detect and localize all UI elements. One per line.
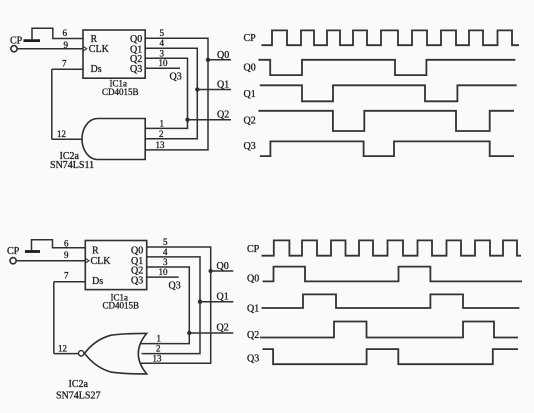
svg-text:12: 12 bbox=[58, 343, 67, 353]
svg-text:Q3: Q3 bbox=[169, 281, 181, 292]
svg-text:Q1: Q1 bbox=[217, 292, 229, 303]
clock edge arrowhead at CLK input (bottom) bbox=[86, 259, 89, 263]
svg-text:2: 2 bbox=[159, 129, 164, 139]
wire CP to CLK pin 9 (top) bbox=[17, 48, 83, 50]
wire feedback vertical from NOR output up to Ds (bottom) bbox=[53, 282, 55, 354]
svg-text:6: 6 bbox=[63, 28, 68, 38]
svg-text:Q2: Q2 bbox=[217, 323, 229, 334]
waveform Q2 (top timing) bbox=[258, 111, 514, 131]
svg-text:Q2: Q2 bbox=[244, 116, 256, 127]
waveform Q2 (bottom timing) bbox=[260, 322, 518, 338]
svg-text:CP: CP bbox=[10, 36, 23, 47]
AND gate IC2a SN74LS11 (mirrored, inputs right, output left) bbox=[82, 119, 145, 160]
svg-text:Q1: Q1 bbox=[244, 89, 256, 100]
svg-text:Q3: Q3 bbox=[170, 72, 182, 83]
junction Q0 branch (top) bbox=[206, 58, 210, 62]
svg-text:Q3: Q3 bbox=[131, 276, 143, 287]
svg-text:7: 7 bbox=[64, 271, 69, 281]
svg-text:12: 12 bbox=[57, 129, 66, 139]
wire Ds input (top, pin 7) bbox=[52, 68, 83, 70]
waveform Q0 (bottom timing) bbox=[263, 267, 523, 282]
terminal circle CP (top) bbox=[11, 46, 17, 52]
wire Q2 pin 3 out, down to gate input 1 (bottom) bbox=[140, 267, 189, 344]
wire Q3 pin 10 stub (bottom) bbox=[147, 276, 179, 278]
clock edge arrowhead at CLK input (top) bbox=[84, 47, 87, 51]
wire Q1 pin 4 out, down to gate input 2 (top) bbox=[145, 48, 197, 139]
wire Q2 branch to right (top) bbox=[188, 119, 232, 121]
svg-text:13: 13 bbox=[156, 140, 166, 150]
svg-text:7: 7 bbox=[62, 58, 67, 68]
svg-text:Q3: Q3 bbox=[247, 354, 259, 365]
junction Q0 branch (bottom) bbox=[209, 269, 213, 273]
svg-text:Q2: Q2 bbox=[247, 330, 259, 341]
svg-text:Q1: Q1 bbox=[247, 304, 259, 315]
svg-text:CLK: CLK bbox=[91, 256, 112, 267]
svg-text:SN74LS27: SN74LS27 bbox=[56, 391, 100, 402]
svg-text:4: 4 bbox=[160, 38, 165, 48]
svg-text:3: 3 bbox=[160, 48, 165, 58]
svg-text:13: 13 bbox=[153, 353, 163, 363]
svg-text:CP: CP bbox=[7, 246, 20, 257]
wire NOR output pin 12 (bottom) bbox=[54, 353, 79, 355]
junction Q1 branch (top) bbox=[195, 87, 199, 91]
wire Q1 branch to right (bottom) bbox=[200, 301, 233, 303]
svg-text:CLK: CLK bbox=[89, 44, 110, 55]
svg-text:IC2a: IC2a bbox=[69, 379, 89, 390]
wire Q0 pin 5 out, down to gate input 13 (top) bbox=[145, 38, 208, 150]
waveform Q1 (top timing) bbox=[260, 85, 517, 101]
svg-text:9: 9 bbox=[64, 250, 69, 260]
svg-text:Ds: Ds bbox=[91, 64, 102, 75]
wire Q2 pin 3 out, down to gate input 1 (top) bbox=[145, 58, 187, 128]
wire AND output pin 12 (top) bbox=[52, 138, 82, 140]
svg-text:CP: CP bbox=[244, 33, 257, 44]
svg-text:Q0: Q0 bbox=[217, 261, 229, 272]
wire Q3 pin 10 stub (top) bbox=[145, 67, 180, 69]
svg-text:4: 4 bbox=[163, 247, 168, 257]
svg-text:Q3: Q3 bbox=[244, 141, 256, 152]
pulse symbol step and wire to R pin 6 (bottom) bbox=[32, 240, 86, 251]
node CP (top input terminal label) bbox=[10, 36, 23, 47]
pulse symbol at CP (bottom): thick low bar bbox=[25, 250, 40, 253]
wire Q0 branch to right (bottom) bbox=[211, 270, 234, 272]
svg-text:Q0: Q0 bbox=[244, 63, 256, 74]
svg-text:CP: CP bbox=[247, 244, 260, 255]
IC U1 bottom: CD4015B box bbox=[85, 241, 146, 290]
svg-text:1: 1 bbox=[160, 119, 165, 129]
wire feedback vertical from AND output up to Ds (top) bbox=[51, 69, 53, 139]
svg-text:1: 1 bbox=[157, 334, 162, 344]
svg-text:5: 5 bbox=[160, 28, 165, 38]
junction Q2 branch (top) bbox=[185, 118, 189, 122]
wire Q2 branch to right (bottom) bbox=[189, 332, 233, 334]
NOR gate IC2a SN74LS27 (mirrored OR shape, inputs right, output left) bbox=[85, 333, 147, 374]
svg-text:Q1: Q1 bbox=[217, 79, 229, 90]
waveform CP (bottom timing) bbox=[262, 240, 522, 255]
junction Q1 branch (bottom) bbox=[198, 300, 202, 304]
svg-text:10: 10 bbox=[159, 267, 169, 277]
wire Q0 branch to right (top) bbox=[208, 59, 231, 61]
IC U1 top: CD4015B box bbox=[83, 30, 145, 78]
waveform Q3 (bottom timing) bbox=[263, 349, 519, 364]
svg-text:9: 9 bbox=[64, 40, 69, 50]
svg-text:5: 5 bbox=[163, 237, 168, 247]
svg-text:CD4015B: CD4015B bbox=[102, 87, 139, 97]
wire CP to CLK pin 9 (bottom) bbox=[16, 260, 85, 262]
wire Ds input (bottom, pin 7) bbox=[54, 281, 86, 283]
svg-text:10: 10 bbox=[159, 58, 169, 68]
waveform Q3 (top timing) bbox=[260, 141, 514, 156]
svg-text:Ds: Ds bbox=[92, 276, 103, 287]
pulse symbol step and wire to R pin 6 (top) bbox=[32, 28, 83, 40]
svg-text:6: 6 bbox=[64, 238, 69, 248]
node CP (bottom input terminal label) bbox=[7, 246, 20, 257]
terminal circle CP (bottom) bbox=[10, 258, 16, 264]
svg-text:3: 3 bbox=[163, 257, 168, 267]
svg-text:Q3: Q3 bbox=[130, 64, 142, 75]
svg-text:Q0: Q0 bbox=[217, 50, 229, 61]
waveform Q0 (top timing) bbox=[258, 60, 515, 75]
waveform Q1 (bottom timing) bbox=[262, 294, 520, 308]
wire Q0 pin 5 out, down to gate input 13 (bottom) bbox=[140, 247, 211, 363]
svg-text:CD4015B: CD4015B bbox=[103, 301, 140, 311]
junction Q2 branch (bottom) bbox=[187, 331, 191, 335]
wire Q1 pin 4 out, down to gate input 2 (bottom) bbox=[142, 257, 201, 354]
waveform CP (top timing) bbox=[262, 30, 520, 45]
wire Q1 branch to right (top) bbox=[197, 89, 231, 91]
svg-text:Q0: Q0 bbox=[247, 274, 259, 285]
pulse symbol at CP (top): thick low bar bbox=[24, 39, 41, 42]
inverting bubble on NOR output (pin 12) bbox=[79, 351, 84, 356]
svg-text:2: 2 bbox=[156, 344, 161, 354]
svg-text:SN74LS11: SN74LS11 bbox=[50, 160, 94, 171]
svg-text:Q2: Q2 bbox=[217, 110, 229, 121]
